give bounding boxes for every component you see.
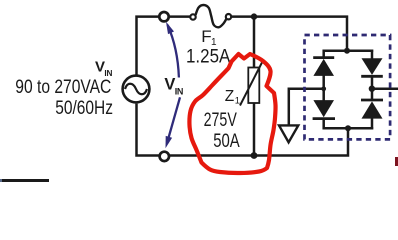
junction dot bridge top rail (344, 48, 350, 54)
junction dot top wire x varistor (251, 13, 257, 19)
svg-text:50A: 50A (213, 131, 240, 152)
svg-text:Z: Z (225, 88, 234, 105)
ground symbol open triangle (279, 125, 298, 142)
arrow V_IN lower shaft (169, 97, 180, 137)
fuse F1 left terminal circle (190, 14, 195, 19)
AC source V_IN circle (123, 76, 150, 103)
wire varistor top lead (253, 17, 256, 68)
diode top-left triangle (313, 59, 334, 76)
arrow V_IN upper head (166, 22, 174, 34)
svg-text:IN: IN (175, 87, 184, 97)
diode bottom-left triangle (313, 100, 334, 117)
diode bottom-right triangle (362, 101, 383, 118)
wire bridge right column (371, 50, 374, 130)
diode bottom-right cathode bar (361, 99, 383, 102)
wire ground branch from left column midpoint (289, 89, 324, 125)
node bottom input terminal (160, 152, 169, 161)
diode bottom-left cathode bar (313, 117, 335, 120)
svg-text:1: 1 (235, 96, 240, 107)
diode top-right cathode bar (361, 75, 383, 78)
junction dot left column midpoint (321, 86, 326, 91)
svg-text:90 to 270VAC: 90 to 270VAC (15, 77, 111, 98)
AC source sine wave (125, 84, 147, 95)
blue sliver at left edge of bar (0, 179, 2, 182)
svg-text:1.25A: 1.25A (186, 46, 231, 67)
svg-text:275V: 275V (204, 110, 237, 131)
arrow V_IN lower head (166, 136, 173, 148)
dashed box around bridge rectifier (305, 35, 391, 139)
wire DC+ output to right edge (372, 87, 398, 90)
diode top-left cathode bar (313, 56, 334, 59)
varistor Z1 diagonal stroke (240, 61, 263, 106)
node top input terminal (159, 12, 168, 21)
red annotation circle around varistor (189, 54, 275, 173)
wire varistor bottom lead (253, 103, 256, 156)
fuse F1 element squiggle (196, 5, 227, 27)
fuse F1 right terminal circle (226, 14, 231, 19)
varistor Z1 body rectangle (248, 68, 259, 104)
junction dot bridge bottom rail (345, 125, 351, 131)
svg-text:50/60Hz: 50/60Hz (55, 98, 113, 119)
junction dot DC+ node (369, 86, 375, 92)
arrow V_IN upper shaft (168, 25, 179, 78)
dark red mark at right edge artifact (395, 157, 398, 166)
junction dot bottom wire x varistor (251, 152, 258, 159)
wire bridge left column (322, 50, 325, 130)
wire top rail from left corner to fuse (137, 17, 191, 75)
wire bridge bottom rail (323, 127, 374, 130)
diode top-right triangle (362, 58, 383, 75)
black bar bottom-left edge artifact (2, 179, 49, 182)
wire bridge top rail (323, 50, 374, 53)
wire bottom rail from AC source to bridge bottom drop (137, 104, 349, 156)
wire top rail from fuse to bridge drop (231, 17, 347, 51)
